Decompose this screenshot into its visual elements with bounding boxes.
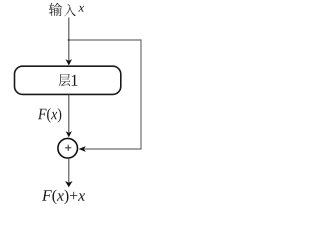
arrowhead: output arrow (points down) bbox=[65, 181, 72, 187]
wire: skip connection horizontal top segment bbox=[69, 39, 141, 41]
wire: skip connection vertical right segment bbox=[140, 39, 142, 149]
label: layer character 层 bbox=[59, 74, 71, 86]
label: digit 1 of 层1 bbox=[72, 75, 78, 86]
label: input variable x (italic) bbox=[78, 6, 84, 12]
arrowhead: into adder from top (points down) bbox=[66, 131, 72, 137]
adder: plus sign horizontal bar bbox=[65, 147, 71, 149]
wire: vertical from input label down to branch node bbox=[68, 18, 70, 41]
label: F(x) (italic) bbox=[38, 108, 61, 123]
label: input character 入 bbox=[64, 4, 76, 16]
wire: vertical from layer box down to adder bbox=[68, 95, 70, 133]
wire: skip connection bottom segment into adder bbox=[85, 148, 142, 150]
wire: vertical from branch node into layer box bbox=[68, 40, 70, 61]
node: branch junction of skip connection bbox=[68, 39, 70, 41]
arrowhead: into layer box (points down) bbox=[66, 59, 72, 65]
adder: circle of plus node bbox=[58, 138, 78, 158]
arrowhead: skip connection into adder (points left) bbox=[79, 146, 86, 152]
label: output F(x)+x (italic) bbox=[42, 190, 85, 205]
adder: plus sign vertical bar bbox=[67, 145, 69, 151]
block: layer 1 rounded rectangle bbox=[15, 66, 121, 94]
wire: vertical from adder down to output bbox=[68, 159, 70, 182]
label: input character 输 bbox=[49, 3, 62, 16]
